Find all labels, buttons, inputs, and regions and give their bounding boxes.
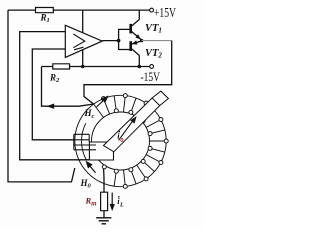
- resistor R2: [53, 64, 70, 69]
- svg-text:-15V: -15V: [141, 70, 161, 84]
- hall element gap ladder: [73, 134, 75, 150]
- arrow iL (load current): [111, 193, 113, 207]
- wire op-amp output: [102, 40, 118, 42]
- transistor VT2: [129, 41, 132, 51]
- arrow i0 (primary current): [119, 119, 134, 140]
- resistor R1: [36, 8, 54, 13]
- wire emitter output down and around to winding start: [84, 41, 172, 104]
- wire outer feedback bus (left) down to toroid bottom: [8, 10, 75, 182]
- wire winding end to Rm: [103, 169, 105, 193]
- wire op-amp noninverting input bus: [20, 32, 90, 160]
- transistor VT1: [129, 24, 132, 34]
- arrow H0 (primary field): [88, 163, 96, 172]
- toroid inner circle: [92, 112, 150, 170]
- arrowhead on feedback wire pointing left: [47, 104, 54, 109]
- wire Rm to ground: [103, 211, 105, 218]
- node emitter output: [140, 39, 143, 42]
- node junction R1/R2 feedback: [81, 65, 85, 69]
- hall element plate: [89, 142, 113, 160]
- wire op-amp inverting input bus: [32, 49, 74, 140]
- wire feedback vertical through op-amp (R1 to R2 node): [82, 10, 84, 66]
- svg-text:L: L: [119, 203, 124, 209]
- toroid gap arc: [82, 123, 87, 160]
- resistor Rm: [101, 192, 108, 211]
- op-amp U1: [65, 25, 102, 57]
- winding spokes and loops: [94, 104, 104, 118]
- wire R2 row / -15V rail: [42, 66, 150, 68]
- wire R2 bus down to winding top node: [42, 67, 94, 107]
- toroid outer circle: [75, 95, 166, 186]
- ground: [96, 217, 111, 219]
- wire emitter output (gray segment): [142, 40, 172, 42]
- svg-text:+15V: +15V: [154, 5, 176, 20]
- node base junction: [117, 39, 121, 43]
- terminal -15V: [150, 65, 154, 69]
- terminal +15V: [150, 8, 154, 12]
- wire top rail from R1 to +15V terminal: [8, 9, 150, 11]
- arrow Hc (compensation field): [97, 98, 107, 107]
- wire base link VT1/VT2: [119, 29, 131, 49]
- primary conductor bar with square end: [104, 91, 169, 152]
- node VT2 collector on -15V rail: [138, 65, 142, 69]
